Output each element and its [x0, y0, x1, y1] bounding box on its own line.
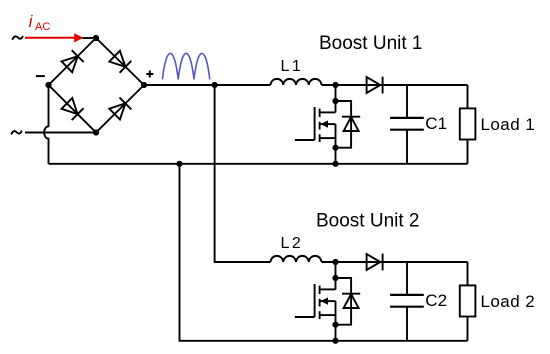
svg-text:Load 1: Load 1 [481, 115, 536, 134]
svg-text:C1: C1 [425, 114, 447, 133]
wire: negative rail of boost unit 1 [49, 163, 468, 165]
svg-text:L1: L1 [281, 58, 304, 75]
junction: Q2 drain / D2 anode node [332, 259, 338, 265]
inductor L2 [271, 256, 322, 262]
junction: Q1 drain to body-diode branch [332, 98, 338, 104]
junction: bridge top vertex [93, 35, 99, 41]
capacitor C1 [390, 85, 424, 164]
junction: Q1 drain / D1 anode node [332, 82, 338, 88]
wire: D1 cathode to output node [383, 84, 468, 86]
label i_AC (red) [29, 12, 51, 33]
AC phase symbol ~ (top input) [13, 36, 23, 39]
AC current arrow i_AC (red) [25, 33, 84, 42]
junction: Q2 drain to body-diode branch [332, 275, 338, 281]
wire: unit 2 return drop and bottom rail [180, 164, 468, 341]
inductor L1 [271, 79, 322, 85]
junction: bridge left vertex [45, 82, 51, 88]
diode bridge arm: left vertex to bottom vertex [49, 85, 97, 133]
svg-text:L2: L2 [281, 235, 304, 252]
transistor Q1 (MOSFET, unit 1) [295, 85, 336, 164]
junction: bridge right vertex [141, 82, 147, 88]
wire: arrow tip to bridge top vertex [83, 37, 97, 39]
diode bridge arm: bottom vertex to right vertex [96, 85, 144, 133]
svg-text:AC: AC [35, 21, 50, 33]
svg-text:Boost Unit 1: Boost Unit 1 [319, 33, 423, 54]
wire: bridge right vertex to L1 [144, 84, 271, 86]
body diode of Q2 [336, 278, 361, 325]
wire: D2 cathode to output node [383, 261, 468, 263]
load resistor Load 1 [460, 85, 476, 164]
wire: rectifier output node down to unit 2 input [215, 85, 271, 262]
svg-text:C2: C2 [425, 291, 447, 310]
diode bridge arm: left vertex to top vertex [49, 38, 97, 85]
diode D1 (boost diode, unit 1) [367, 77, 383, 94]
junction: node rectifier output / unit 2 tap [212, 82, 218, 88]
junction: bridge bottom vertex [93, 129, 99, 135]
transistor Q2 (MOSFET, unit 2) [295, 262, 336, 341]
svg-text:Load 2: Load 2 [481, 292, 536, 311]
label: bridge positive terminal + [146, 71, 153, 78]
load resistor Load 2 [460, 262, 476, 341]
wire: L1 to Q1 drain node [322, 84, 383, 86]
diode bridge arm: top vertex to right vertex [96, 38, 144, 85]
wire: bottom AC input to bridge bottom vertex [25, 132, 96, 134]
junction: Q2 source to body-diode branch [332, 322, 338, 328]
junction: negative rail to unit 2 return [176, 161, 182, 167]
junction: Q2 source at bottom rail [332, 338, 338, 344]
wire: bridge left vertex down to negative rail (hop over AC wire) [44, 85, 48, 164]
diode D2 (boost diode, unit 2) [367, 254, 383, 271]
rectified sine waveform (blue) [162, 53, 209, 79]
label: bridge negative terminal - [36, 75, 45, 77]
junction: Q1 source to body-diode branch [332, 145, 338, 151]
junction: Q1 source at negative rail [332, 161, 338, 167]
svg-text:Boost Unit 2: Boost Unit 2 [316, 211, 420, 232]
wire: L2 to Q2 drain node [322, 261, 383, 263]
AC phase symbol ~ (bottom input) [12, 131, 22, 134]
capacitor C2 [390, 262, 424, 341]
body diode of Q1 [336, 101, 361, 148]
